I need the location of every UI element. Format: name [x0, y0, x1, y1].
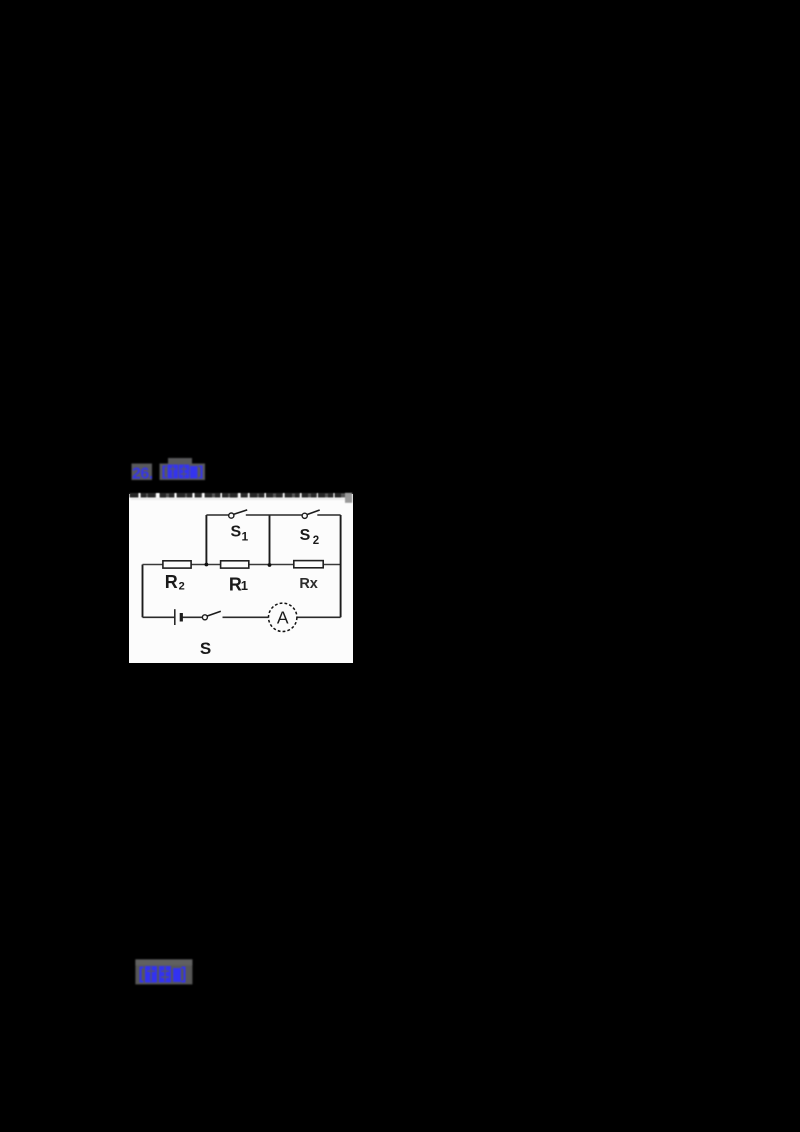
analysis label line: "[analysis]" blue text on gray highlight: [134, 957, 204, 989]
svg-text:26.: 26.: [132, 466, 153, 483]
label Rx: [299, 576, 318, 592]
svg-text:1: 1: [241, 578, 248, 593]
wire: middle rail horizontal: [143, 564, 341, 566]
label R2: [165, 572, 185, 592]
resistor R1: [221, 561, 249, 568]
label R1: [229, 574, 248, 594]
svg-text:S: S: [230, 524, 241, 541]
svg-text:S: S: [300, 527, 311, 544]
switch S2: [302, 510, 320, 518]
switch S: [202, 611, 220, 620]
wire: top rail segment left of S1: [206, 514, 228, 516]
faint smudge under strip: [131, 498, 347, 501]
svg-text:A: A: [277, 608, 289, 628]
switch S1: [229, 510, 247, 518]
node A junction dot: [205, 563, 209, 567]
svg-text:2: 2: [179, 581, 185, 593]
svg-text:2: 2: [313, 535, 319, 547]
wire: right vertical (top rail to bottom rail): [340, 515, 342, 617]
wire: bottom rail segment switch S to ammeter: [223, 616, 269, 618]
resistor R2: [163, 561, 191, 568]
ammeter A1: [269, 603, 297, 631]
wire: vertical from top rail to node A: [205, 515, 207, 565]
circuit schematic: [129, 494, 353, 663]
resistor Rx: [294, 561, 323, 568]
label S1: [230, 524, 248, 544]
svg-text:Rx: Rx: [299, 576, 318, 592]
label S2: [300, 527, 320, 547]
white figure box with circuit: [129, 494, 353, 663]
label S (main switch): [200, 639, 211, 658]
gray mark at strip right end: [345, 493, 352, 503]
wire: bottom rail segment ammeter to right vertical: [297, 616, 341, 618]
wire: bottom rail segment left of battery: [143, 616, 175, 618]
wire: vertical from top rail to node B: [269, 515, 271, 565]
wire: left vertical (middle rail to bottom rail): [142, 565, 144, 618]
wire: bottom rail segment battery to switch S: [183, 616, 203, 618]
answer label line: "26. [answer]" blue text on gray highlight: [128, 454, 228, 486]
svg-text:1: 1: [242, 530, 249, 544]
wire: top rail segment between S1 and S2: [246, 514, 302, 516]
svg-text:R: R: [165, 572, 178, 592]
svg-text:S: S: [200, 639, 211, 658]
wire: top rail segment right of S2: [317, 514, 340, 516]
node B junction dot: [268, 563, 272, 567]
battery cell: [175, 609, 182, 625]
cropped text fragments strip along top of figure box: [129, 492, 353, 506]
